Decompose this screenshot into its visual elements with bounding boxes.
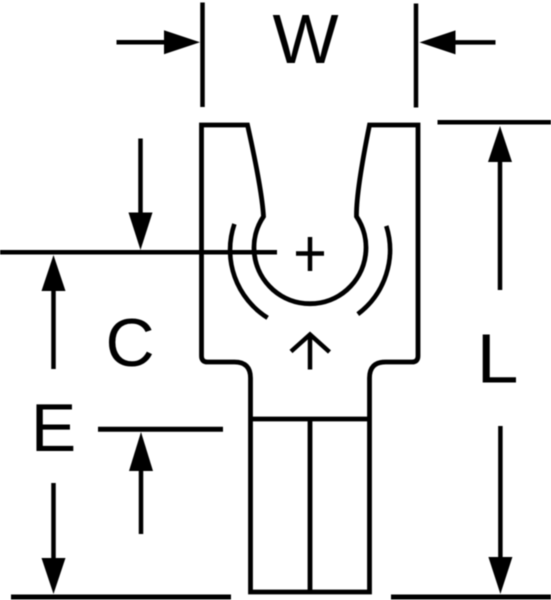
C reference line [0, 250, 277, 255]
L dimension lower arrow [488, 426, 512, 594]
W right arrow [420, 30, 496, 54]
crimp seam line [251, 417, 370, 422]
center mark cross [296, 237, 324, 271]
bottom reference line left segment [11, 595, 231, 600]
E dimension upper arrow [42, 255, 66, 369]
E dimension line [98, 427, 223, 432]
svg-text:L: L [477, 320, 519, 398]
E dimension lower arrow [42, 483, 66, 594]
C dimension lower arrow [129, 432, 153, 534]
right spring arc [358, 226, 390, 314]
C dimension upper arrow [129, 139, 153, 251]
svg-text:W: W [272, 0, 338, 78]
location chevron arrow [291, 335, 330, 370]
bottom reference line right segment [391, 595, 551, 600]
L dimension upper arrow [488, 126, 512, 290]
left spring arc [230, 224, 268, 318]
svg-text:C: C [105, 305, 154, 381]
W left extension line [200, 3, 205, 108]
svg-text:E: E [31, 390, 76, 466]
W left arrow [117, 30, 201, 54]
tongue center line [308, 419, 313, 592]
terminal body outline [202, 125, 419, 592]
L extension line [438, 120, 551, 125]
W right extension line [414, 4, 419, 108]
